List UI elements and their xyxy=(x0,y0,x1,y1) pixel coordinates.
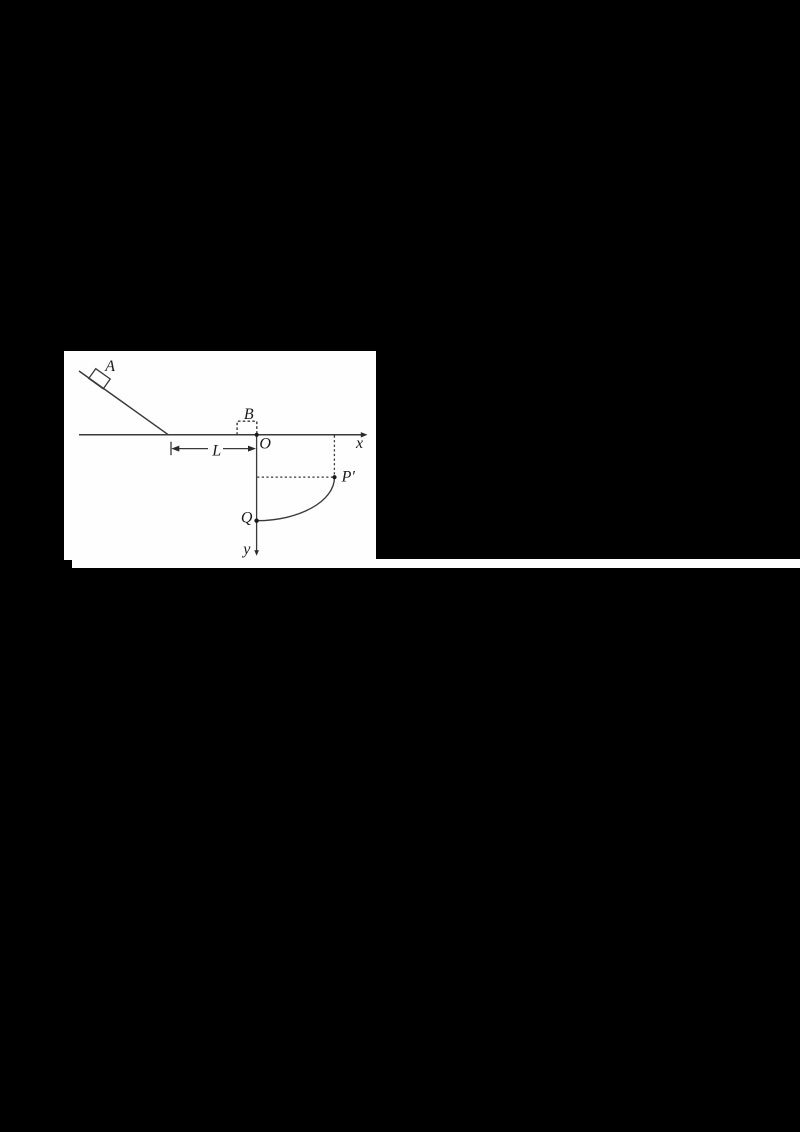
svg-text:y: y xyxy=(241,541,251,558)
svg-text:A: A xyxy=(104,358,115,375)
block B (dotted rectangle) xyxy=(237,421,257,435)
y-axis xyxy=(256,435,258,552)
svg-text:x: x xyxy=(355,435,363,452)
white figure panel xyxy=(64,351,376,560)
point P' xyxy=(332,475,336,479)
block A on incline xyxy=(89,369,110,389)
point O xyxy=(255,433,259,437)
L tick mark xyxy=(170,442,172,456)
ground line / x-axis xyxy=(79,434,362,436)
L arrow shaft right xyxy=(223,448,251,450)
dashed horizontal from y-axis to P' xyxy=(257,476,334,478)
trajectory curve Q to P' (quarter ellipse) xyxy=(257,477,335,521)
x-axis arrowhead xyxy=(361,432,368,437)
y-axis arrowhead xyxy=(254,550,259,556)
dashed vertical from x-axis to P' xyxy=(333,436,335,478)
L arrowhead left xyxy=(171,446,179,452)
svg-text:B: B xyxy=(244,406,254,423)
incline surface xyxy=(79,371,168,435)
point Q xyxy=(254,519,258,523)
L arrowhead right xyxy=(248,446,256,452)
L arrow shaft left xyxy=(177,448,208,450)
svg-text:L: L xyxy=(211,442,221,459)
svg-text:P′: P′ xyxy=(341,469,356,486)
white strip along bottom of panel extending right xyxy=(72,559,800,568)
svg-text:Q: Q xyxy=(241,510,253,527)
svg-text:O: O xyxy=(259,436,271,453)
